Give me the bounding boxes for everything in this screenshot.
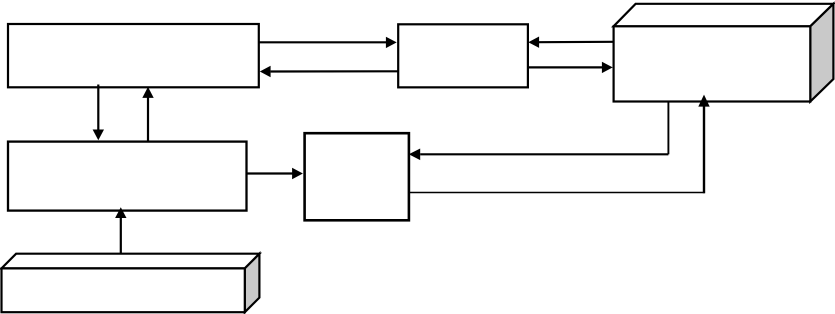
block B6 bottom-left 3D slab bbox=[2, 254, 260, 313]
arrow A5 B1 to B3 (down) bbox=[93, 85, 104, 141]
block B2 top-middle rectangle bbox=[398, 24, 528, 87]
arrow A1 B1 to B2 (right) bbox=[259, 37, 397, 48]
block B3 middle-left rectangle bbox=[8, 142, 247, 211]
arrow A6 B3 to B1 (up) bbox=[142, 87, 153, 142]
wire W2 horizontal run from B4 right edge bbox=[409, 192, 705, 194]
arrow A3 B5 to B2 (left) bbox=[528, 37, 612, 48]
block B5 top-right 3D cuboid bbox=[614, 4, 834, 102]
arrow A10 W2 up into B5 bottom bbox=[698, 95, 709, 194]
block B4 small middle square bbox=[305, 133, 409, 220]
arrow A8 B3 to B4 (right) bbox=[247, 168, 303, 179]
arrow A7 B6 to B3 (up) bbox=[115, 207, 126, 254]
wire W1 vertical drop from B5 bottom bbox=[667, 101, 669, 155]
block B1 top-left rectangle bbox=[8, 24, 259, 87]
arrow A4 B2 to B5 (right) bbox=[528, 62, 613, 73]
arrow A9 W1 to B4 (left) bbox=[409, 149, 669, 161]
arrow A2 B2 to B1 (left) bbox=[260, 66, 398, 77]
